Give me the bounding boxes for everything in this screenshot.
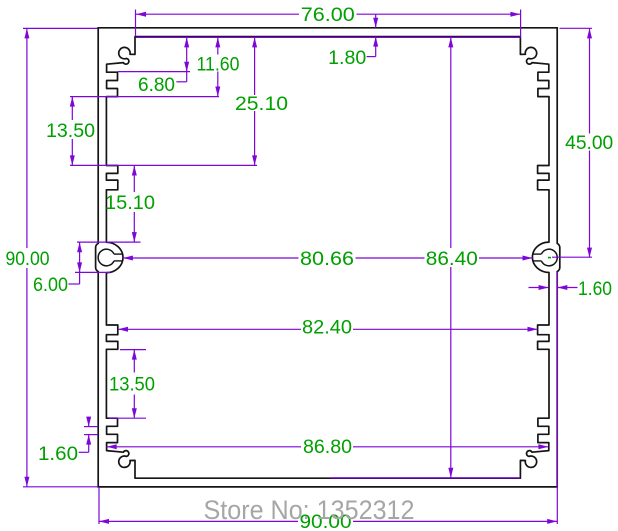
dimension 86.80 line bbox=[107, 446, 549, 448]
dimension 15.10 line bbox=[133, 166, 135, 243]
inner cavity outline with screw channels and ribs bbox=[106, 37, 549, 479]
svg-text:Store No: 1352312: Store No: 1352312 bbox=[204, 495, 415, 525]
dimension 1.60 left line and leader bbox=[79, 420, 89, 453]
svg-text:76.00: 76.00 bbox=[301, 5, 355, 26]
svg-text:13.50: 13.50 bbox=[46, 121, 95, 142]
svg-text:11.60: 11.60 bbox=[197, 54, 240, 75]
svg-text:80.66: 80.66 bbox=[300, 249, 354, 270]
dimension 76.00 line bbox=[136, 13, 520, 15]
svg-text:82.40: 82.40 bbox=[302, 318, 352, 339]
svg-text:86.40: 86.40 bbox=[426, 249, 478, 270]
dimension 6.00 line and leader bbox=[69, 242, 80, 284]
dimension 6.80 line and leader bbox=[176, 37, 186, 81]
dimension 45.00 line bbox=[589, 28, 591, 257]
svg-text:6.00: 6.00 bbox=[33, 275, 68, 296]
svg-text:1.60: 1.60 bbox=[38, 444, 78, 465]
svg-text:6.80: 6.80 bbox=[138, 75, 175, 96]
dimension 86.40 line bbox=[450, 37, 452, 477]
dimension 82.40 line bbox=[118, 328, 538, 330]
dimension 1.60 right line bbox=[529, 287, 578, 289]
dimension 25.10 line bbox=[254, 37, 256, 165]
outer profile outline bbox=[96, 28, 560, 487]
dimension 13.50 upper line bbox=[71, 97, 73, 166]
svg-text:15.10: 15.10 bbox=[105, 193, 155, 214]
svg-text:1.80: 1.80 bbox=[328, 48, 366, 69]
left screw boss C-hole bbox=[98, 249, 114, 266]
svg-text:86.80: 86.80 bbox=[303, 437, 352, 458]
svg-text:25.10: 25.10 bbox=[235, 94, 288, 115]
green dot right boss center bbox=[548, 257, 551, 259]
svg-text:1.60: 1.60 bbox=[578, 279, 612, 300]
dimension 90.00 left line bbox=[26, 28, 28, 486]
dimension 1.80 line and leader bbox=[367, 14, 376, 56]
dimension 80.66 line bbox=[123, 257, 533, 259]
svg-text:45.00: 45.00 bbox=[565, 133, 613, 154]
svg-text:13.50: 13.50 bbox=[109, 375, 155, 396]
right screw boss C-hole bbox=[541, 249, 557, 266]
dimension 90.00 bottom line bbox=[99, 520, 557, 522]
dimension 13.50 lower line bbox=[133, 350, 135, 419]
dimension 11.60 line bbox=[217, 37, 219, 96]
svg-text:90.00: 90.00 bbox=[6, 249, 50, 270]
